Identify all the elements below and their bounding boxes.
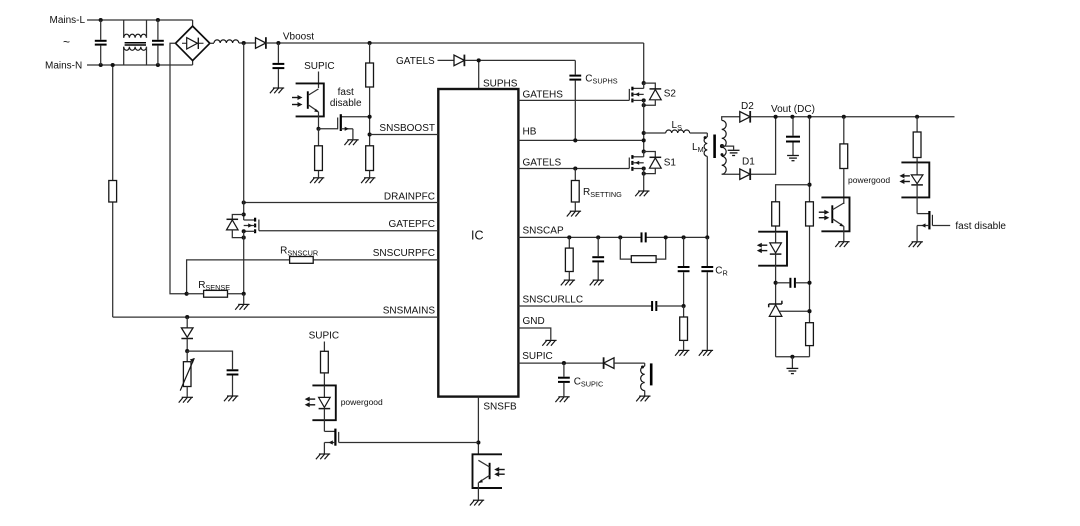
resistor LLC divider lower [680, 306, 688, 350]
svg-text:GATEHS: GATEHS [523, 89, 564, 100]
transistor M1 fast-disable [319, 114, 370, 139]
wire Vout rail [751, 116, 955, 118]
junction RC right [664, 235, 668, 239]
IC label [471, 229, 484, 243]
label C-SUPHS [585, 74, 618, 86]
opto U6 LED [911, 162, 923, 213]
pin label SNSMAINS [383, 305, 436, 316]
resistor parallel sense [620, 237, 665, 262]
wire+resistor divider upper [366, 43, 374, 146]
AC symbol ~ [63, 35, 70, 49]
svg-text:fast disable: fast disable [955, 221, 1006, 232]
junction divider cap top [682, 235, 686, 239]
common-mode choke left leads [123, 20, 125, 65]
svg-text:SNSMAINS: SNSMAINS [383, 305, 436, 316]
node Vout label [771, 104, 815, 115]
junction N-C2 [156, 63, 160, 67]
svg-text:GATEPFC: GATEPFC [389, 219, 435, 230]
wire bridge plus [210, 42, 214, 44]
node Vboost label [283, 31, 314, 42]
node SUPHS label [483, 78, 518, 89]
opto U4 LED [770, 232, 782, 266]
wire pin GATEHS [518, 99, 629, 101]
wire pin DRAINPFC [244, 202, 439, 204]
capacitor fb compensation [776, 278, 810, 288]
wire S1 source ground [643, 169, 645, 191]
pin label SNSBOOST [379, 123, 435, 134]
junction N divider [111, 63, 115, 67]
body diode S2 [644, 83, 662, 105]
ground C-SUPIC [555, 397, 569, 402]
wire bridge minus [170, 43, 187, 293]
svg-text:Mains-N: Mains-N [45, 61, 82, 72]
svg-text:SNSFB: SNSFB [483, 401, 517, 412]
opto U4 box (feedback LED) [758, 232, 787, 266]
wire TL431 ref [780, 310, 810, 312]
opto U5 phototransistor [832, 203, 844, 241]
transistor S2 [629, 83, 643, 102]
label S2 [664, 88, 677, 99]
svg-text:powergood: powergood [848, 175, 890, 185]
junction fb ground [790, 355, 794, 359]
ground sense cap [224, 396, 238, 401]
ground U3 emitter [470, 500, 484, 505]
ground aux winding [636, 396, 650, 401]
svg-text:SUPHS: SUPHS [483, 78, 518, 89]
label powergood (left) [341, 397, 383, 407]
label fast disable (left) [330, 87, 362, 109]
wire Mains-N rail [87, 61, 193, 65]
diode mains sense [181, 317, 193, 351]
inductor Ls [644, 130, 708, 133]
svg-text:Vout (DC): Vout (DC) [771, 104, 815, 115]
wire aux winding top [614, 363, 645, 366]
resistor opto2 anode [321, 351, 329, 385]
pin label SNSFB [483, 401, 517, 412]
junction S1 drain [642, 149, 646, 153]
ground R-SETTING [567, 211, 581, 216]
label C-SUPIC [574, 376, 604, 388]
body diode PFC [227, 215, 244, 238]
junction R-SETTING [573, 166, 577, 170]
node Mains-N label [45, 61, 82, 72]
resistor R-SENSE [187, 290, 244, 297]
wire D1 out [751, 117, 776, 174]
wire pin SNSCURLLC [518, 305, 652, 307]
junction secondary tap [720, 144, 724, 148]
svg-text:SNSCAP: SNSCAP [523, 226, 564, 237]
ground LLC divider [675, 350, 689, 355]
svg-text:Vboost: Vboost [283, 31, 314, 42]
pin label SUPIC [522, 351, 553, 362]
ground M3 source [316, 454, 330, 459]
ground C-R [699, 350, 713, 355]
pin label SNSCAP [523, 226, 564, 237]
junction R-SENSE left [185, 292, 189, 296]
junction PFC source stub [242, 229, 246, 233]
capacitor SNSCAP filter [592, 237, 604, 279]
junction PFC drain node [242, 41, 246, 45]
svg-text:~: ~ [63, 35, 70, 49]
transformer secondary phase dot [721, 153, 724, 156]
wire pin SNSCURPFC [187, 260, 439, 294]
transformer primary phase dot [704, 136, 707, 139]
transformer secondary winding [722, 120, 726, 174]
ground SNSCAP resistor [561, 280, 575, 285]
pin label SNSCURPFC [373, 248, 435, 259]
capacitor C-R resonant [701, 237, 713, 350]
junction S2 source stub [642, 98, 646, 102]
svg-text:D2: D2 [741, 101, 754, 112]
label R-SNSCUR [280, 245, 318, 257]
common-mode choke core bars [125, 43, 146, 45]
capacitor Vout filter [786, 117, 800, 155]
aux core bar [650, 363, 653, 385]
wire feedback divider [809, 117, 811, 357]
wire SNSCURLLC right [656, 305, 683, 307]
ground IC GND [542, 340, 556, 345]
diode D1 [740, 168, 750, 180]
svg-text:SUPIC: SUPIC [309, 331, 340, 342]
junction fb upper [807, 183, 811, 187]
wire SUPHS rail [465, 60, 575, 89]
pin label GATELS [523, 158, 562, 169]
opto U6 box (fast disable LED) [901, 162, 929, 197]
junction Vboost divider top [368, 41, 372, 45]
ground opto1 resistor [310, 178, 324, 183]
wire Vboost rail [266, 43, 644, 83]
label R-SETTING [583, 187, 622, 199]
ground S1 source [635, 191, 649, 196]
junction Vout cap branch [807, 115, 811, 119]
diode bootstrap [454, 55, 464, 67]
junction S1 body diode [642, 172, 646, 176]
svg-text:S2: S2 [664, 88, 677, 99]
opto U5 light arrows [819, 210, 830, 221]
opto U2 light arrows [305, 397, 316, 408]
wire pin SNSFB [477, 397, 479, 455]
svg-text:SNSCURPFC: SNSCURPFC [373, 248, 435, 259]
pin label GND [523, 316, 545, 327]
opto U3 light arrows [494, 467, 505, 477]
resistor N sense top [109, 181, 117, 203]
node Mains-L label [50, 15, 86, 26]
junction C-R top [705, 235, 709, 239]
wire to boost diode [239, 42, 256, 44]
label S1 [664, 157, 677, 168]
label R-SENSE [198, 280, 230, 292]
junction PFC mosfet drain [242, 212, 246, 216]
junction Vboost [276, 41, 280, 45]
label D2 [741, 101, 754, 112]
opto U2 LED [319, 385, 331, 420]
transistor M3 powergood pulldown [324, 429, 478, 454]
capacitor C-SUPIC [558, 363, 570, 396]
capacitor Vboost [273, 43, 285, 88]
wire secondary center tap [722, 146, 734, 150]
common-mode choke top winding [124, 34, 147, 38]
junction SNSBOOST [368, 132, 372, 136]
diode boost [256, 37, 266, 49]
svg-text:disable: disable [330, 98, 362, 109]
ground fb divider [787, 357, 799, 374]
svg-text:D1: D1 [742, 156, 755, 167]
junction SNSCURLLC [682, 304, 686, 308]
ground M1 source [344, 140, 358, 145]
capacitor LLC current sense [652, 301, 656, 311]
junction RC left [618, 235, 622, 239]
ground Vout cap [787, 156, 799, 161]
resistor fastdisable LED [913, 117, 921, 163]
ground M2 source [909, 242, 923, 247]
transformer aux winding [641, 366, 645, 390]
junction C-SUPIC [562, 361, 566, 365]
aux winding phase dot [641, 366, 644, 369]
wire pin SNSCAP [518, 236, 707, 238]
node SUPIC label (opto2) [309, 331, 340, 342]
junction fb cap left [774, 281, 778, 285]
diode SUPIC supply [604, 357, 614, 369]
resistor R-SETTING [571, 169, 579, 211]
wire half-bridge mid [643, 100, 645, 151]
ground U5 emitter [835, 242, 849, 247]
transformer core bar [713, 135, 716, 159]
pin label DRAINPFC [384, 192, 435, 203]
bridge rectifier diamond [176, 26, 210, 61]
svg-text:SNSBOOST: SNSBOOST [379, 123, 435, 134]
wire secondary bottom [722, 173, 740, 175]
svg-text:SUPIC: SUPIC [522, 351, 553, 362]
pin label SNSCURLLC [523, 294, 584, 305]
svg-text:IC: IC [471, 229, 484, 243]
capacitor series sense [642, 232, 646, 242]
transistor PFC MOSFET [244, 218, 259, 234]
label C-R [715, 265, 728, 277]
capacitor X1 (mains filter) [95, 20, 107, 65]
ground divider lower [361, 178, 375, 183]
wire secondary top [722, 117, 740, 121]
wire opto2 to M3 [323, 420, 325, 431]
node GATELS label (top) [396, 56, 435, 67]
ground SNSCAP cap [590, 280, 604, 285]
capacitor X2 (filter) [152, 20, 164, 65]
junction L-C2 [156, 18, 160, 22]
wire sense node to cap [187, 351, 232, 369]
transistor M2 fast-disable [917, 211, 950, 241]
junction Vout fastdisable branch [915, 115, 919, 119]
svg-text:GATELS: GATELS [396, 56, 435, 67]
wire PFC drain [243, 43, 245, 220]
body diode S1 [644, 152, 662, 174]
svg-text:Mains-L: Mains-L [50, 15, 86, 26]
ground PFC source [235, 304, 249, 309]
transformer primary winding [704, 133, 707, 237]
junction S2 body diode [642, 103, 646, 107]
wire fb LED down [775, 266, 777, 304]
node SUPIC label (opto1) [304, 61, 335, 72]
wire pin GATELS [518, 158, 629, 169]
resistor R-SNSCUR [290, 257, 314, 264]
junction S1 source stub [642, 166, 646, 170]
common-mode choke bottom winding [124, 47, 147, 51]
resistor powergood collector [840, 117, 848, 204]
pin label GATEHS [523, 89, 564, 100]
ground Vboost cap [270, 88, 284, 93]
junction SUPHS [477, 58, 481, 62]
junction PFC body diode [242, 236, 246, 240]
varistor (adjustable) [180, 351, 194, 397]
label Ls [672, 120, 683, 132]
junction HB node [642, 138, 646, 142]
wire fb bottom rail [776, 356, 810, 358]
junction DRAINPFC [242, 200, 246, 204]
shunt regulator TL431 [769, 301, 782, 357]
wire pin SNSBOOST [370, 134, 439, 136]
transistor S1 [632, 152, 643, 171]
resistor divider lower [366, 146, 374, 178]
ground varistor [179, 397, 193, 402]
opto U1 light arrows [292, 95, 303, 107]
ground secondary tap [728, 150, 740, 155]
svg-text:HB: HB [523, 126, 537, 137]
wire GATELS to diode [438, 59, 455, 61]
wire SUPIC opto2 [323, 342, 325, 352]
opto U4 light arrows [757, 243, 768, 253]
svg-text:S1: S1 [664, 157, 677, 168]
svg-text:DRAINPFC: DRAINPFC [384, 192, 435, 203]
pin label HB [523, 126, 537, 137]
wire pin HB [518, 139, 643, 141]
resistor SNSCAP [565, 237, 573, 279]
wire SUPIC to opto1 [318, 72, 320, 89]
capacitor sense filter [227, 370, 239, 395]
wire Mains-L rail [87, 20, 193, 26]
opto U1 phototransistor [308, 89, 319, 129]
wire aux winding bottom [644, 391, 646, 396]
svg-text:SNSCURLLC: SNSCURLLC [523, 294, 584, 305]
junction R-SENSE right [242, 292, 246, 296]
junction Vout powergood branch [842, 115, 846, 119]
junction Vout D1 [774, 115, 778, 119]
junction HB C-SUPHS [573, 138, 577, 142]
label fast disable (right) [955, 221, 1006, 232]
junction N-C1 [99, 63, 103, 67]
junction SNSCAP c1 [596, 235, 600, 239]
opto U6 light arrows [899, 173, 910, 184]
svg-text:fast: fast [338, 87, 354, 98]
inductor L-PFC [214, 40, 239, 43]
junction fb cap right [807, 281, 811, 285]
pin label GATEPFC [389, 219, 435, 230]
resistor fb upper-left [772, 202, 780, 226]
wire pin GATEPFC [259, 230, 438, 232]
wire N sense divider [112, 65, 114, 317]
opto U5 box [821, 197, 849, 231]
IC box [438, 89, 518, 397]
opto U1 box [296, 83, 324, 116]
bridge inner diode [182, 38, 204, 49]
resistor fb lower [806, 323, 814, 346]
junction SNSMAINS diode [185, 315, 189, 319]
wire PFC source [243, 231, 245, 293]
opto U3 box (feedback receiver) [473, 454, 503, 488]
svg-text:powergood: powergood [341, 397, 383, 407]
label D1 [742, 156, 755, 167]
junction Ls node [642, 131, 646, 135]
wire pin GND [518, 328, 550, 340]
opto U2 box (powergood LED) [312, 385, 335, 420]
wire PFC source ground [243, 294, 245, 304]
opto U3 phototransistor [478, 460, 489, 499]
junction sense node [185, 349, 189, 353]
junction SNSFB gate [476, 440, 480, 444]
diode D2 [740, 111, 750, 123]
junction opto1 emitter [316, 127, 320, 131]
junction TL431 ref [807, 309, 811, 313]
resistor fb upper-right [806, 202, 814, 226]
svg-text:SUPIC: SUPIC [304, 61, 335, 72]
wire fb branch [776, 185, 810, 232]
capacitor C-SUPHS [569, 76, 581, 141]
common-mode choke right leads [146, 20, 148, 65]
svg-text:GND: GND [523, 316, 545, 327]
label Lm [692, 142, 704, 154]
label powergood (right) [848, 175, 890, 185]
resistor opto1 emitter [315, 129, 323, 178]
junction M1 drain [368, 115, 372, 119]
junction SNSCAP r1 [567, 235, 571, 239]
junction Vout cap [790, 115, 794, 119]
wire pin SUPIC [518, 362, 603, 364]
junction S2 drain [642, 81, 646, 85]
capacitor LLC divider [678, 237, 690, 306]
junction L-C1 [99, 18, 103, 22]
wire pin SNSMAINS [113, 316, 439, 318]
svg-text:GATELS: GATELS [523, 158, 562, 169]
